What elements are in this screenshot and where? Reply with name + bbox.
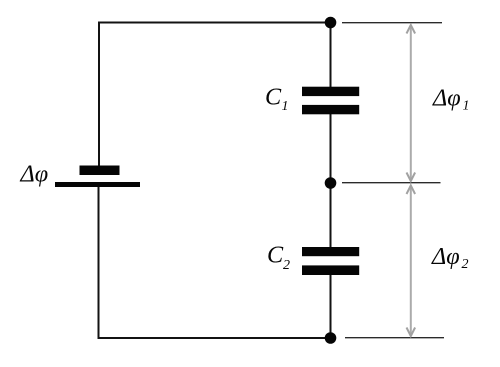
arrow Δφ2 shaft bbox=[410, 186, 412, 337]
reference line top bbox=[342, 22, 442, 24]
svg-text:C: C bbox=[265, 83, 282, 110]
wire right vertical: C1 to C2 through middle node bbox=[330, 113, 332, 248]
arrow Δφ1 bottom head bbox=[407, 173, 416, 182]
capacitor C2 bottom plate bbox=[302, 265, 359, 275]
wire left vertical lower (battery to bottom) bbox=[98, 186, 100, 339]
wire right vertical: top node to C1 bbox=[330, 23, 332, 89]
battery positive plate (thick short) bbox=[80, 166, 120, 176]
capacitor C2 top plate bbox=[302, 247, 359, 256]
reference line bottom bbox=[345, 337, 444, 339]
svg-text:1: 1 bbox=[463, 99, 470, 114]
svg-text:Δφ: Δφ bbox=[432, 85, 461, 112]
wire right vertical: C2 to bottom node bbox=[330, 274, 332, 338]
node bottom junction dot bbox=[325, 332, 337, 344]
capacitor C1 bottom plate bbox=[302, 105, 359, 114]
svg-text:2: 2 bbox=[283, 258, 290, 273]
reference line middle bbox=[342, 182, 441, 184]
svg-text:Δφ: Δφ bbox=[20, 161, 49, 188]
wire left vertical upper (top to battery) bbox=[98, 22, 100, 167]
battery negative plate (long thin) bbox=[55, 182, 140, 187]
node middle junction dot bbox=[325, 177, 337, 189]
arrow Δφ2 bottom head bbox=[407, 328, 416, 337]
svg-text:Δφ: Δφ bbox=[431, 243, 460, 270]
arrow Δφ1 shaft bbox=[410, 25, 412, 181]
node top junction dot bbox=[325, 17, 337, 29]
arrow Δφ2 top head bbox=[407, 186, 416, 195]
svg-text:C: C bbox=[267, 241, 284, 268]
svg-text:1: 1 bbox=[282, 99, 289, 114]
arrow Δφ1 top head bbox=[407, 25, 416, 34]
svg-text:2: 2 bbox=[462, 257, 469, 272]
wire top horizontal bbox=[98, 22, 331, 24]
wire bottom horizontal bbox=[98, 337, 331, 339]
capacitor C1 top plate bbox=[302, 87, 359, 96]
